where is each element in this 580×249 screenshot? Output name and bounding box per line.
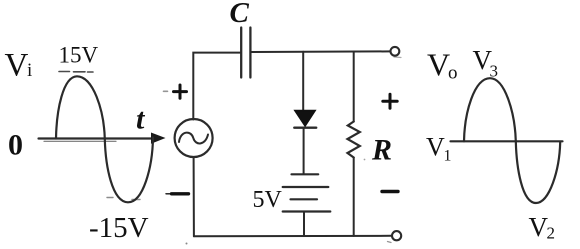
scan speck under bottom terminal — [388, 242, 392, 243]
label V1 — [426, 133, 452, 165]
label V2 — [529, 212, 556, 243]
scan speck at bottom-left corner — [186, 243, 188, 245]
svg-text:R: R — [371, 134, 392, 167]
svg-text:V: V — [5, 48, 29, 84]
svg-text:15V: 15V — [59, 43, 99, 68]
dashed -15V level marks — [107, 198, 140, 200]
ac source V2 circle — [175, 119, 213, 157]
wire capacitor to top-right terminal — [252, 50, 391, 53]
wire source bottom to bottom rail — [193, 157, 195, 236]
svg-text:5V: 5V — [253, 187, 283, 213]
resistor R zigzag — [348, 122, 360, 158]
minus sign at source bottom — [166, 192, 189, 195]
dashed 15V level line — [59, 71, 93, 74]
svg-text:-15V: -15V — [89, 212, 149, 244]
ac source sine symbol — [179, 133, 208, 144]
input sine wave negative half — [105, 138, 153, 203]
capacitor C left plate — [240, 28, 242, 78]
output sine positive half — [464, 78, 516, 141]
input axis t — [39, 133, 166, 144]
svg-text:t: t — [136, 103, 146, 136]
wire top-left from source to capacitor — [193, 53, 240, 120]
label V3 — [473, 45, 499, 81]
scan speck near resistor foot — [364, 159, 366, 161]
capacitor C right plate — [249, 28, 251, 78]
svg-text:V: V — [529, 212, 549, 242]
input sine wave positive half — [56, 76, 105, 139]
wire resistor to bottom rail — [353, 158, 355, 236]
svg-text:1: 1 — [444, 148, 452, 165]
label Vo — [427, 47, 458, 84]
diode D1 — [294, 111, 316, 128]
svg-text:0: 0 — [8, 129, 23, 162]
svg-text:o: o — [448, 63, 458, 84]
svg-text:V: V — [426, 133, 445, 162]
wire resistor branch top — [353, 52, 355, 122]
output sine negative half — [516, 141, 560, 203]
scan speck under top terminal — [394, 56, 401, 59]
svg-text:C: C — [230, 0, 250, 29]
wire diode to battery — [303, 129, 305, 175]
output axis — [451, 140, 563, 142]
plus sign at source top — [174, 85, 187, 98]
scan speck near source plus — [164, 90, 168, 92]
plus sign at output top — [383, 94, 397, 108]
svg-text:2: 2 — [547, 224, 556, 243]
bottom wire rail — [194, 235, 392, 237]
wire battery to bottom rail — [303, 212, 305, 237]
svg-text:i: i — [27, 60, 32, 81]
svg-text:V: V — [427, 47, 450, 83]
svg-text:3: 3 — [490, 62, 499, 81]
label Vi — [5, 48, 33, 84]
output terminal top — [391, 47, 400, 56]
wire diode branch top — [302, 52, 304, 111]
output terminal bottom — [392, 231, 401, 240]
battery V1 5V — [283, 174, 331, 211]
minus sign at output bottom — [382, 190, 398, 193]
